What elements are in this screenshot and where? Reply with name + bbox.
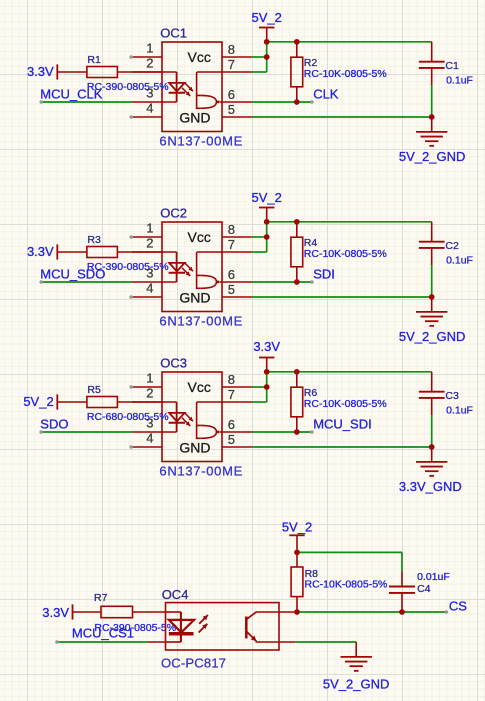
svg-text:R3: R3 <box>87 234 101 246</box>
svg-text:5V_2_GND: 5V_2_GND <box>323 676 389 691</box>
svg-text:1: 1 <box>146 221 153 236</box>
svg-text:MCU_SDI: MCU_SDI <box>313 416 372 431</box>
svg-text:5V_2: 5V_2 <box>23 394 53 409</box>
svg-text:5V_2: 5V_2 <box>252 190 282 205</box>
svg-text:0.01uF: 0.01uF <box>417 571 450 583</box>
svg-text:0.1uF: 0.1uF <box>446 404 473 416</box>
svg-text:C1: C1 <box>445 60 459 72</box>
svg-text:8: 8 <box>228 222 235 237</box>
svg-text:3.3V: 3.3V <box>27 64 54 79</box>
svg-text:6N137-00ME: 6N137-00ME <box>159 463 243 478</box>
svg-text:3.3V: 3.3V <box>42 605 69 620</box>
svg-text:C3: C3 <box>445 390 459 402</box>
svg-text:6N137-00ME: 6N137-00ME <box>159 133 243 148</box>
svg-text:OC3: OC3 <box>160 355 187 370</box>
svg-text:6: 6 <box>228 267 235 282</box>
svg-text:2: 2 <box>146 236 153 251</box>
svg-text:RC-680-0805-5%: RC-680-0805-5% <box>87 411 169 423</box>
svg-text:RC-10K-0805-5%: RC-10K-0805-5% <box>304 248 387 260</box>
svg-text:MCU_CLK: MCU_CLK <box>40 86 102 101</box>
svg-text:2: 2 <box>146 56 153 71</box>
svg-text:6: 6 <box>228 87 235 102</box>
svg-text:3.3V_GND: 3.3V_GND <box>399 479 462 494</box>
svg-text:2: 2 <box>146 386 153 401</box>
svg-text:5V_2_GND: 5V_2_GND <box>399 329 465 344</box>
svg-text:RC-10K-0805-5%: RC-10K-0805-5% <box>304 398 387 410</box>
svg-text:GND: GND <box>179 289 210 305</box>
svg-text:OC4: OC4 <box>162 587 189 602</box>
svg-text:5V_2: 5V_2 <box>282 519 312 534</box>
svg-text:4: 4 <box>146 431 153 446</box>
svg-text:GND: GND <box>179 109 210 125</box>
svg-text:3.3V: 3.3V <box>27 244 54 259</box>
svg-text:0.1uF: 0.1uF <box>446 254 473 266</box>
svg-text:4: 4 <box>146 101 153 116</box>
svg-text:CLK: CLK <box>313 86 339 101</box>
svg-text:8: 8 <box>228 372 235 387</box>
svg-text:OC-PC817: OC-PC817 <box>161 656 226 671</box>
svg-text:1: 1 <box>146 41 153 56</box>
svg-text:5V_2: 5V_2 <box>252 10 282 25</box>
svg-text:3.3V: 3.3V <box>253 339 280 354</box>
svg-text:GND: GND <box>179 439 210 455</box>
svg-text:CS: CS <box>449 599 467 614</box>
svg-text:MCU_SDO: MCU_SDO <box>40 266 105 281</box>
svg-text:MCU_CS1: MCU_CS1 <box>72 625 134 640</box>
svg-text:OC1: OC1 <box>160 25 187 40</box>
svg-text:RC-10K-0805-5%: RC-10K-0805-5% <box>304 68 387 80</box>
svg-text:7: 7 <box>228 237 235 252</box>
svg-text:OC2: OC2 <box>160 205 187 220</box>
svg-text:5V_2_GND: 5V_2_GND <box>399 149 465 164</box>
svg-text:7: 7 <box>228 387 235 402</box>
svg-text:0.1uF: 0.1uF <box>446 74 473 86</box>
svg-text:4: 4 <box>146 281 153 296</box>
svg-text:R7: R7 <box>94 592 108 604</box>
svg-text:RC-10K-0805-5%: RC-10K-0805-5% <box>305 579 388 591</box>
svg-text:5: 5 <box>228 102 235 117</box>
svg-text:R5: R5 <box>87 384 101 396</box>
svg-text:5: 5 <box>228 282 235 297</box>
svg-text:Vcc: Vcc <box>188 49 211 65</box>
svg-text:Vcc: Vcc <box>188 379 211 395</box>
svg-text:SDO: SDO <box>40 416 68 431</box>
svg-text:C4: C4 <box>417 583 431 595</box>
svg-text:R1: R1 <box>87 54 101 66</box>
svg-text:6: 6 <box>228 417 235 432</box>
svg-text:1: 1 <box>146 371 153 386</box>
svg-text:6N137-00ME: 6N137-00ME <box>159 313 243 328</box>
svg-text:8: 8 <box>228 42 235 57</box>
svg-text:C2: C2 <box>445 240 459 252</box>
svg-text:5: 5 <box>228 432 235 447</box>
svg-text:7: 7 <box>228 57 235 72</box>
svg-text:Vcc: Vcc <box>188 229 211 245</box>
svg-text:SDI: SDI <box>313 266 335 281</box>
